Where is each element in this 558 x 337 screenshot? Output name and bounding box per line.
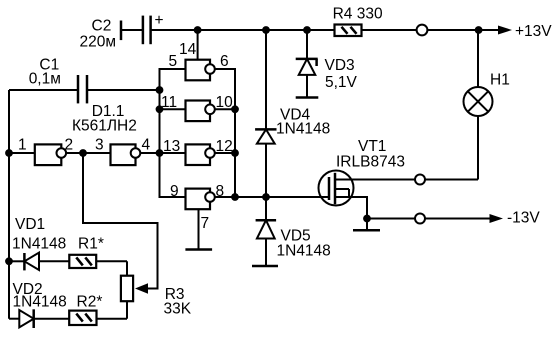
wire gate1 out to node: [66, 152, 83, 154]
svg-text:220м: 220м: [80, 34, 117, 51]
node rail/VD4: [262, 26, 270, 34]
svg-text:9: 9: [170, 183, 179, 200]
wire pin 14 to rail: [197, 30, 199, 60]
svg-text:IRLB8743: IRLB8743: [336, 154, 405, 171]
node C1/input bus: [156, 86, 164, 94]
svg-text:К561ЛН2: К561ЛН2: [72, 118, 137, 135]
wire top +13V rail: [151, 29, 335, 31]
capacitor C2: [80, 12, 164, 51]
R3 wiper arrow: [135, 283, 148, 294]
svg-text:R2*: R2*: [77, 294, 103, 311]
svg-text:C2: C2: [92, 18, 112, 35]
svg-text:0,1м: 0,1м: [29, 71, 61, 88]
svg-text:6: 6: [220, 53, 229, 70]
resistor R1: [69, 236, 104, 269]
wire R1 to R3 top: [96, 260, 127, 262]
inverter D1 gate 13-12: [160, 138, 233, 165]
svg-text:VD1: VD1: [15, 216, 45, 233]
svg-text:VD3: VD3: [325, 57, 355, 74]
svg-text:1N4148: 1N4148: [12, 236, 66, 253]
diode VD4: [255, 30, 330, 197]
inverter D1 gate 5-6: [169, 41, 229, 80]
inverter D1 gate 9-8: [170, 183, 224, 209]
wire output bus to MOSFET gate: [235, 196, 329, 198]
connector terminal on source wire: [415, 214, 425, 224]
connector terminal on +13V rail: [417, 25, 428, 36]
diode VD2: [9, 281, 69, 328]
svg-text:4: 4: [142, 137, 151, 154]
svg-text:5: 5: [169, 53, 178, 70]
node gate wire / VD4 VD5: [262, 193, 270, 201]
svg-text:1N4148: 1N4148: [277, 243, 331, 260]
zener VD3: [296, 30, 358, 98]
wire left bus: [8, 90, 10, 319]
svg-text:3: 3: [95, 137, 104, 154]
ground pin 7: [185, 248, 212, 251]
svg-text:H1: H1: [490, 72, 510, 89]
node rail/VD3: [303, 26, 311, 34]
ground below VD3: [296, 96, 319, 99]
diode VD5: [256, 197, 331, 266]
node left bus gate1 input: [5, 149, 13, 157]
wire source: [353, 197, 492, 219]
wire drain to lamp column: [353, 179, 478, 181]
node 2/3: [79, 149, 87, 157]
wire gate4 out to input bus: [140, 152, 159, 154]
svg-text:13: 13: [163, 138, 180, 155]
wire gate 8 output to bus: [215, 196, 235, 198]
+13V arrow: [498, 23, 552, 40]
node gate4/input bus: [156, 149, 164, 157]
svg-text:-13V: -13V: [507, 209, 540, 226]
svg-text:R4 330: R4 330: [333, 6, 383, 23]
node source/ground: [363, 215, 371, 223]
svg-text:11: 11: [161, 94, 177, 111]
wire gate 6 output: [215, 69, 235, 197]
svg-text:14: 14: [179, 41, 197, 58]
diode VD1: [9, 216, 69, 270]
node input bus pin 11: [156, 105, 164, 113]
resistor R2: [69, 294, 102, 326]
connector terminal on drain wire: [415, 175, 425, 185]
svg-text:+: +: [155, 12, 164, 29]
svg-text:1: 1: [18, 137, 27, 154]
svg-text:7: 7: [201, 215, 210, 232]
-13V arrow: [490, 209, 541, 226]
inverter D1 gate 1-2: [9, 137, 73, 166]
node left bus VD1: [5, 257, 13, 265]
wire node2 to R3 wiper: [83, 153, 158, 289]
ground at source: [353, 219, 380, 231]
node output bus pin 8: [231, 193, 239, 201]
wire R2 to R3 bottom: [97, 318, 128, 320]
svg-text:VT1: VT1: [358, 138, 386, 155]
svg-text:5,1V: 5,1V: [325, 74, 358, 91]
wire input bus (pins 5,11,13,9): [160, 69, 186, 197]
lamp H1: [464, 30, 510, 180]
wire top rail right of R4: [362, 29, 501, 31]
ground below VD5: [252, 265, 278, 268]
inverter D1 gate 3-4: [83, 137, 151, 166]
node output bus pin 10: [231, 105, 239, 113]
inverter D1 gate 11-10: [160, 94, 234, 121]
wire gate 10 output: [215, 108, 235, 110]
capacitor C1: [9, 56, 160, 103]
svg-text:R1*: R1*: [78, 236, 104, 253]
svg-text:33K: 33K: [164, 300, 192, 317]
svg-text:2: 2: [65, 137, 74, 154]
wire gate 12 output: [215, 152, 235, 154]
node rail/H1: [475, 26, 483, 34]
node rail/pin14: [194, 26, 202, 34]
wire pin 7: [199, 209, 210, 249]
potentiometer R3: [121, 261, 192, 318]
resistor R4: [333, 6, 383, 37]
svg-text:+13V: +13V: [515, 23, 552, 40]
svg-text:1N4148: 1N4148: [13, 294, 67, 311]
node output bus pin 12: [231, 149, 239, 157]
transistor VT1 MOSFET: [319, 138, 405, 206]
svg-text:1N4148: 1N4148: [276, 121, 330, 138]
